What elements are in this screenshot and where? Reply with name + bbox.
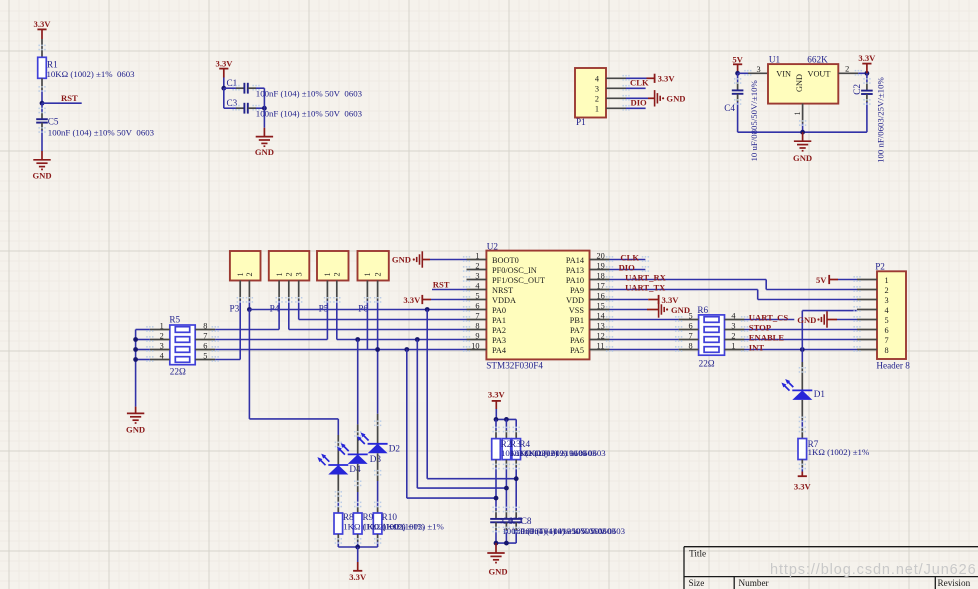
svg-text:RST: RST [61, 93, 78, 103]
svg-text:1: 1 [236, 272, 245, 276]
designator C1 [227, 78, 238, 88]
pin number 2 of U1 [845, 64, 849, 73]
resistor network R5 [170, 325, 195, 365]
net label UART_RX [625, 272, 667, 282]
LED D4 [317, 454, 348, 475]
button P5 [317, 251, 349, 281]
U2 right pin numbers [597, 251, 606, 350]
svg-text:STOP: STOP [749, 322, 771, 332]
button P4 [269, 251, 310, 281]
wire top rail [496, 418, 516, 420]
wires resistor bottoms to caps [496, 460, 516, 519]
net RST wire to NRST [432, 289, 467, 291]
pin 1 GND of U1 [802, 104, 804, 133]
LED D3 [337, 443, 368, 464]
wire node to C5 [41, 103, 43, 119]
designator U2 [487, 242, 499, 252]
svg-text:10 uF/0805/50V/±10%: 10 uF/0805/50V/±10% [749, 80, 759, 162]
node VIN junction [735, 71, 740, 76]
pin number 3 of U1 [757, 65, 761, 74]
wire C1 to right rail [248, 87, 265, 89]
svg-text:1: 1 [275, 272, 284, 276]
svg-text:3.3V: 3.3V [488, 390, 506, 400]
svg-text:C3: C3 [227, 98, 238, 108]
value C4 rotated [749, 80, 759, 162]
svg-text:CLK: CLK [630, 78, 649, 88]
svg-text:13: 13 [597, 321, 605, 330]
svg-text:18: 18 [597, 271, 605, 280]
svg-text:1: 1 [363, 272, 372, 276]
svg-text:2: 2 [160, 331, 164, 340]
svg-text:3.3V: 3.3V [794, 482, 812, 492]
svg-text:5V: 5V [732, 55, 743, 65]
svg-text:GND: GND [126, 424, 145, 434]
svg-text:8: 8 [885, 346, 889, 355]
pin 2 VOUT wire [838, 72, 867, 74]
resistor R3 [502, 439, 511, 460]
svg-text:20: 20 [597, 251, 605, 260]
svg-text:15: 15 [597, 301, 605, 310]
svg-text:2: 2 [595, 95, 599, 104]
wire C3 to node [248, 107, 265, 109]
svg-text:10KΩ (1002) ±1% 0603: 10KΩ (1002) ±1% 0603 [520, 448, 606, 458]
pin 3 of P1, net CLK [606, 87, 646, 89]
svg-text:PA5: PA5 [570, 346, 584, 355]
svg-text:3.3V: 3.3V [662, 295, 680, 305]
title block labels [689, 548, 971, 588]
svg-text:22Ω: 22Ω [170, 367, 186, 377]
designator R6 [697, 305, 708, 315]
svg-text:P2: P2 [875, 262, 885, 272]
svg-text:VSS: VSS [569, 306, 585, 315]
svg-text:3: 3 [475, 271, 479, 280]
svg-text:Number: Number [739, 578, 769, 588]
svg-text:NRST: NRST [492, 286, 513, 295]
voltage regulator U1 [768, 64, 838, 104]
power 3.3V (U1 output) [858, 53, 876, 73]
capacitor C5 [36, 117, 59, 127]
svg-text:GND: GND [797, 315, 816, 325]
ground GND (U1) [793, 132, 812, 163]
designator D1 [814, 389, 826, 399]
svg-text:UART_CS: UART_CS [749, 312, 789, 322]
value 662K [807, 55, 828, 65]
title block [684, 547, 978, 589]
wire P6 pin1 to PA4 [366, 301, 368, 350]
svg-text:GND: GND [32, 171, 51, 181]
svg-text:5: 5 [885, 316, 889, 325]
power 3.3V (C1/C3) [216, 59, 234, 78]
resistor R9 [353, 512, 373, 534]
net label RST [61, 93, 78, 103]
wire P4 pin3 to PA1 [299, 301, 467, 320]
LED D2 [357, 432, 388, 453]
svg-text:1: 1 [475, 251, 479, 260]
values R2 R3 R4 overlapped [501, 448, 606, 458]
svg-text:P4: P4 [270, 304, 280, 314]
designator D3 [370, 454, 382, 464]
svg-text:1KΩ (1002) ±1%: 1KΩ (1002) ±1% [808, 447, 870, 457]
power 3.3V (R7) below [794, 460, 812, 492]
wire R1 to node RST [41, 78, 43, 103]
net label DIO [631, 97, 648, 107]
svg-text:GND: GND [666, 94, 685, 104]
svg-text:8: 8 [475, 321, 479, 330]
svg-text:D1: D1 [814, 389, 826, 399]
wire R5 pin6 / PA4 [215, 349, 466, 351]
svg-text:STM32F030F4: STM32F030F4 [486, 361, 543, 371]
node C1 junction [221, 86, 226, 91]
node C7 bottom [504, 541, 509, 546]
pin 4 of P1 to 3.3V [606, 77, 655, 79]
designator P4 [270, 304, 280, 314]
svg-text:https://blog.csdn.net/Jun626: https://blog.csdn.net/Jun626 [770, 562, 977, 578]
connector P1 [575, 68, 606, 118]
svg-text:3.3V: 3.3V [216, 59, 234, 69]
designator C3 [227, 98, 238, 108]
wire INT to D1 [801, 350, 803, 391]
svg-text:VDDA: VDDA [492, 296, 516, 305]
designator P3 [230, 304, 240, 314]
net DIO wire (PA13) [610, 269, 646, 271]
wire PA3 dropper to R3 tap [417, 340, 506, 489]
svg-text:GND: GND [671, 305, 690, 315]
resistor network R6 [699, 315, 725, 355]
svg-text:DIO: DIO [619, 262, 636, 272]
resistor R2 [492, 439, 501, 460]
net label DIO [619, 262, 636, 272]
ground GND (caps) [487, 543, 507, 576]
wire P4 pin1 to R5 pin8 [215, 301, 279, 330]
svg-text:1: 1 [595, 105, 599, 114]
svg-text:7: 7 [688, 331, 692, 340]
svg-text:100nF (104) ±10% 50V 0603: 100nF (104) ±10% 50V 0603 [521, 526, 625, 536]
svg-text:3: 3 [885, 296, 889, 305]
svg-text:U1: U1 [769, 55, 781, 65]
svg-text:VIN: VIN [776, 70, 791, 79]
net UART_TX wire PA9 to P2 pin3 [610, 290, 858, 300]
header P2 [877, 271, 906, 359]
svg-text:19: 19 [597, 261, 605, 270]
resistor R4 [512, 439, 521, 460]
designator C4 [724, 103, 735, 113]
wire right rail to ground [263, 88, 265, 136]
svg-text:3: 3 [160, 341, 164, 350]
pin number 1 of U1 rotated [793, 111, 802, 115]
wire PA0 [249, 309, 466, 311]
ground (BOOT0) [392, 251, 467, 267]
P2 pin stubs [857, 280, 877, 350]
value Header 8 [876, 361, 910, 371]
svg-text:3.3V: 3.3V [34, 19, 52, 29]
svg-text:GND: GND [392, 255, 411, 265]
node R3 top [504, 417, 509, 422]
node P3 pin2 / PA0 [247, 307, 252, 312]
capacitor C3 [244, 103, 247, 114]
svg-text:R6: R6 [697, 305, 708, 315]
net ENABLE wire to P2 pin7 [745, 339, 858, 341]
svg-text:CLK: CLK [620, 252, 639, 262]
node R4 tap [514, 476, 519, 481]
pin 1 of P1, net DIO [606, 107, 646, 109]
svg-text:5: 5 [475, 291, 479, 300]
power 3.3V (R1 pull-up) [34, 19, 52, 39]
net INT wire to P2 pin8 [745, 349, 858, 351]
svg-text:2: 2 [731, 331, 735, 340]
wire 3.3V to R1 [41, 39, 43, 57]
svg-text:Title: Title [689, 548, 706, 558]
svg-text:1: 1 [160, 321, 164, 330]
svg-text:GND: GND [795, 74, 804, 92]
svg-text:PA2: PA2 [492, 326, 506, 335]
wires U2 right pins to R6 [610, 320, 679, 350]
ground (VSS) [610, 301, 691, 317]
svg-text:6: 6 [885, 326, 889, 335]
svg-text:3: 3 [595, 85, 599, 94]
svg-text:DIO: DIO [631, 97, 648, 107]
designator D2 [389, 444, 401, 454]
wire 5V to VIN pin 3 [738, 72, 768, 74]
net CLK wire (PA14) [610, 259, 646, 261]
power 3.3V (VDD) [610, 295, 680, 305]
designator C2 rotated [852, 84, 862, 95]
svg-text:Header 8: Header 8 [876, 361, 910, 371]
svg-text:D3: D3 [370, 454, 382, 464]
value 22 ohm R6 [699, 358, 715, 368]
net STOP wire to P2 pin6 [745, 329, 858, 331]
designator P6 [358, 304, 368, 314]
svg-text:UART_TX: UART_TX [625, 282, 666, 292]
svg-text:U2: U2 [487, 242, 499, 252]
node R3 tap [504, 486, 509, 491]
wire C5 to ground [41, 123, 43, 160]
svg-text:5: 5 [688, 311, 692, 320]
wire D3 feed [357, 340, 359, 456]
P4 pin stubs [279, 281, 299, 301]
R6 right pins [725, 320, 745, 350]
ground GND (C1/C3) [255, 137, 274, 158]
value R7 1K [808, 447, 870, 457]
wire P4 pin2 to PA2 [289, 301, 467, 330]
svg-text:R5: R5 [169, 315, 180, 325]
value 22 ohm R5 [170, 367, 186, 377]
ground (P2 pin5) [797, 311, 857, 327]
pin-end speckles [38, 45, 870, 544]
power 3.3V (pull-up rail) [488, 390, 506, 420]
resistor R8 [334, 512, 354, 534]
power 3.3V (LED rail) below [349, 547, 367, 582]
svg-text:6: 6 [475, 301, 479, 310]
svg-text:GND: GND [255, 147, 274, 157]
svg-text:100 nF/0603/25V/±10%: 100 nF/0603/25V/±10% [875, 77, 885, 163]
wire P3 pin2 to D4 [249, 310, 338, 466]
net label INT [749, 342, 765, 352]
designator R5 [169, 315, 180, 325]
wire P5 pin2 to PA3 [337, 301, 467, 340]
svg-text:PB1: PB1 [570, 316, 584, 325]
svg-text:GND: GND [488, 567, 507, 577]
node C3 junction [262, 106, 267, 111]
node ground rail [800, 130, 805, 135]
value C1 100nF [256, 88, 363, 98]
net label ENABLE [749, 332, 785, 342]
svg-text:2: 2 [333, 272, 342, 276]
svg-text:2: 2 [475, 261, 479, 270]
svg-text:100nF (104) ±10% 50V 0603: 100nF (104) ±10% 50V 0603 [48, 128, 155, 138]
node PA3 to D3 [355, 337, 360, 342]
wire node to C1 [224, 87, 245, 89]
wire ground rail U1 [738, 131, 867, 133]
designator D4 [349, 464, 361, 474]
P3 pin stubs [240, 281, 249, 301]
net label UART_TX [625, 282, 666, 292]
svg-text:7: 7 [885, 336, 889, 345]
svg-text:PA9: PA9 [570, 286, 584, 295]
capacitor C7 [501, 519, 513, 522]
node R5 pin2 [133, 337, 138, 342]
wire D3 to R9 [357, 464, 359, 513]
designator P2 [875, 262, 885, 272]
svg-text:1: 1 [323, 272, 332, 276]
wire D4 to R8 [337, 475, 339, 514]
svg-text:PA13: PA13 [566, 266, 584, 275]
svg-text:5V: 5V [816, 275, 827, 285]
svg-text:14: 14 [597, 311, 606, 320]
svg-text:PA3: PA3 [492, 336, 506, 345]
svg-text:2: 2 [885, 286, 889, 295]
svg-text:11: 11 [597, 341, 605, 350]
svg-text:10KΩ (1002) ±1% 0603: 10KΩ (1002) ±1% 0603 [47, 69, 136, 79]
wire D2 to R10 [377, 453, 379, 513]
svg-text:10: 10 [471, 341, 479, 350]
power 5V (P2 pin1) [816, 275, 857, 285]
svg-text:D4: D4 [349, 464, 361, 474]
svg-text:PA14: PA14 [566, 256, 585, 265]
button P3 [230, 251, 261, 281]
capacitor C1 [244, 83, 247, 94]
value C5 100nF [48, 128, 155, 138]
MCU U2 [486, 251, 589, 360]
svg-text:C1: C1 [227, 78, 238, 88]
svg-text:PF1/OSC_OUT: PF1/OSC_OUT [492, 276, 545, 285]
svg-text:6: 6 [688, 321, 692, 330]
svg-text:UART_RX: UART_RX [625, 272, 667, 282]
svg-text:R1: R1 [47, 59, 58, 69]
wires R5 left to ground rail [136, 330, 150, 407]
power 5V (U1 input) [732, 55, 743, 74]
svg-text:PA10: PA10 [566, 276, 584, 285]
node VOUT junction [865, 71, 870, 76]
ground (P1 pin2) [655, 90, 686, 106]
svg-text:100nF (104) ±10% 50V 0603: 100nF (104) ±10% 50V 0603 [256, 88, 363, 98]
wire P5 pin1 to R5 pin7 [215, 301, 327, 340]
R5 left pins [150, 330, 170, 360]
node PA4 dropper [404, 347, 409, 352]
node PA3 dropper [415, 337, 420, 342]
wires R8-R10 to 3.3V rail [338, 534, 377, 547]
svg-text:PA7: PA7 [570, 326, 584, 335]
svg-text:PA4: PA4 [492, 346, 507, 355]
svg-text:3: 3 [731, 321, 735, 330]
R6 pin numbers [688, 311, 736, 350]
node PA0 dropper [425, 307, 430, 312]
capacitor C8 [510, 519, 522, 522]
svg-text:100nF (104) ±10% 50V 0603: 100nF (104) ±10% 50V 0603 [256, 109, 363, 119]
svg-text:BOOT0: BOOT0 [492, 256, 519, 265]
values R8 R9 R10 1K overlapped [343, 521, 444, 531]
pin 2 of P1 to ground [606, 97, 655, 99]
designator P1 [576, 117, 586, 127]
net label RST (NRST) [433, 279, 450, 289]
svg-text:C8: C8 [521, 516, 532, 526]
svg-text:2: 2 [245, 272, 254, 276]
svg-text:C2: C2 [852, 84, 862, 95]
svg-text:Revision: Revision [938, 578, 971, 588]
P6 pin stubs [367, 281, 377, 301]
resistor R1 [38, 57, 58, 78]
U2 left pin numbers [471, 251, 480, 350]
svg-text:3.3V: 3.3V [403, 295, 421, 305]
power 3.3V (VDDA) [403, 295, 466, 305]
LED D1 [781, 379, 812, 400]
U2 right pins 20-11 [590, 260, 610, 350]
svg-text:662K: 662K [807, 55, 828, 65]
wire left rail C1-C3 [224, 88, 245, 108]
P5 pin stubs [327, 281, 336, 301]
node R5 pin4 [133, 357, 138, 362]
designators C6 C7 C8 overlapped [502, 516, 532, 526]
svg-text:22Ω: 22Ω [699, 358, 715, 368]
wire PA4 dropper to R2 tap [407, 350, 496, 499]
net label UART_CS [749, 312, 789, 322]
svg-text:2: 2 [285, 272, 294, 276]
svg-text:ENABLE: ENABLE [749, 332, 785, 342]
capacitor C2 [861, 73, 873, 132]
value C3 100nF [256, 109, 363, 119]
svg-text:PA0: PA0 [492, 306, 506, 315]
capacitor C6 [490, 519, 502, 522]
wire P3 pin2 down (PA0 net) [248, 301, 250, 310]
wire 3.3V to node C1 [223, 78, 225, 89]
svg-text:1: 1 [793, 111, 802, 115]
svg-text:VOUT: VOUT [807, 70, 830, 79]
svg-text:1: 1 [885, 276, 889, 285]
node LED rail [355, 545, 360, 550]
resistor R10 [373, 512, 397, 534]
node RST [40, 101, 82, 106]
svg-text:INT: INT [749, 342, 765, 352]
svg-text:12: 12 [597, 331, 605, 340]
designators R2 R3 R4 overlapped [501, 439, 531, 449]
wire D1 to R7 [801, 400, 803, 439]
values C6 C7 C8 overlapped [502, 526, 625, 536]
svg-text:PA6: PA6 [570, 336, 584, 345]
ground GND (R5) [126, 407, 145, 435]
svg-text:RST: RST [433, 279, 450, 289]
designator U1 [769, 55, 781, 65]
R6 left pins [679, 320, 699, 350]
svg-text:C5: C5 [48, 117, 59, 127]
net label CLK [620, 252, 639, 262]
node INT to D1 [800, 347, 805, 352]
svg-text:17: 17 [597, 281, 605, 290]
net UART_RX wire PA10 to P2 pin2 [610, 280, 858, 290]
net UART_CS wire [745, 319, 795, 321]
svg-text:2: 2 [845, 64, 849, 73]
svg-text:PA1: PA1 [492, 316, 506, 325]
svg-text:9: 9 [475, 331, 479, 340]
capacitor C4 [732, 73, 744, 132]
